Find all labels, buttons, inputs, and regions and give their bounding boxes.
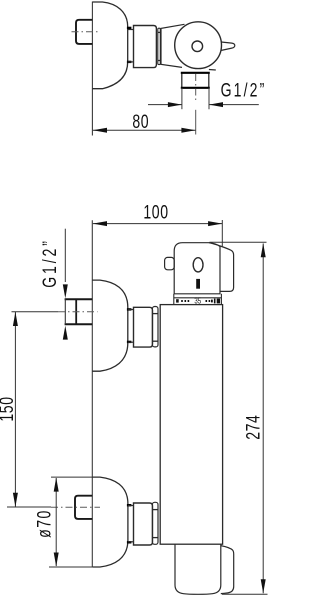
outlet thread extension lines (top view) — [181, 88, 183, 109]
arrow up (150) — [13, 312, 18, 326]
upper inlet union — [65, 298, 93, 300]
svg-text:80: 80 — [132, 111, 149, 133]
cap side button — [165, 257, 175, 269]
arrow down (150) — [13, 493, 18, 507]
svg-text:ø70: ø70 — [34, 509, 56, 538]
cap front face — [174, 243, 220, 294]
collar ring (top view) — [158, 28, 161, 64]
ext bottom (274) — [222, 593, 268, 595]
dimension 80 (top view) — [93, 129, 196, 131]
arrow up (274) — [261, 243, 266, 257]
lower wall flange — [92, 477, 128, 567]
cap index bar — [196, 279, 200, 289]
svg-text:35: 35 — [194, 298, 201, 306]
inlet union (top view, behind wall) — [76, 20, 92, 44]
leader left segment — [148, 104, 182, 106]
inlet centerline (top view) — [72, 31, 98, 33]
svg-text:274: 274 — [242, 415, 264, 440]
lower pipe stub — [128, 505, 134, 507]
arrow at outlet right edge — [209, 102, 223, 107]
svg-text:G1/2”: G1/2” — [221, 79, 267, 101]
union nut (top view) — [134, 26, 157, 68]
knob center circle — [192, 41, 203, 52]
cap oval window — [193, 258, 203, 272]
cap rear shell — [209, 243, 234, 292]
G1/2 callout (top view) — [148, 104, 259, 106]
seal top (flange face, top view) — [127, 27, 131, 29]
lower union nut — [134, 503, 153, 545]
mixer tube body — [160, 305, 222, 545]
dimension phi70 — [55, 478, 57, 566]
ext top (274) — [210, 241, 267, 243]
G1/2 arrow up at inlet bottom — [63, 326, 68, 340]
upper inlet centerline + 150 top extension — [12, 311, 59, 313]
upper collar ring — [152, 307, 158, 347]
valve body block (top view) — [161, 24, 185, 67]
G1/2 arrow down at inlet top — [63, 284, 68, 298]
upper inlet divider — [75, 299, 77, 326]
dimension 274 — [262, 244, 264, 594]
arrow down (phi70) — [54, 553, 59, 567]
lower collar ring — [152, 502, 158, 544]
band tick marks — [176, 299, 220, 304]
dimension 150 — [14, 312, 16, 507]
lower seals — [127, 504, 131, 506]
lower inlet centerline + 150 bottom extension — [7, 506, 51, 508]
arrow at outlet left edge — [168, 102, 182, 107]
lever pointer (top view) — [221, 42, 235, 51]
temperature band lines — [174, 297, 222, 299]
wall line (front view) — [91, 220, 93, 567]
G1/2 leader line (front) — [64, 229, 66, 282]
arrow left (80) — [93, 128, 107, 133]
upper seals — [127, 308, 131, 310]
arrow up (phi70) — [54, 478, 59, 492]
upper pipe stub — [128, 309, 134, 311]
arrow left (100) — [93, 221, 107, 226]
wall line (top view) — [91, 2, 93, 136]
svg-text:100: 100 — [143, 202, 168, 224]
svg-text:G1/2”: G1/2” — [39, 238, 61, 288]
bottom cap rear shell — [221, 546, 234, 594]
ext top (phi70) — [51, 476, 92, 478]
arrow right (100) — [208, 221, 222, 226]
upper union nut — [134, 307, 153, 347]
dimension 100 — [93, 223, 223, 225]
outlet nut (top view) — [182, 73, 209, 88]
ext bottom (phi70) — [49, 566, 92, 568]
bottom cap front face — [175, 544, 221, 594]
upper wall flange — [92, 280, 128, 371]
ext line right of 100 — [221, 220, 223, 247]
arrow down (274) — [261, 579, 266, 593]
svg-text:150: 150 — [0, 396, 17, 421]
outlet centerline (top view) — [195, 74, 197, 103]
wall flange (top view) — [92, 2, 127, 89]
arrow right (80) — [181, 128, 195, 133]
knob circle (top view) — [175, 22, 222, 69]
seal bottom (flange face, top view) — [127, 61, 131, 63]
leader right segment — [209, 104, 259, 106]
pipe stub (top view) — [128, 29, 134, 31]
lower inlet union — [75, 496, 92, 519]
